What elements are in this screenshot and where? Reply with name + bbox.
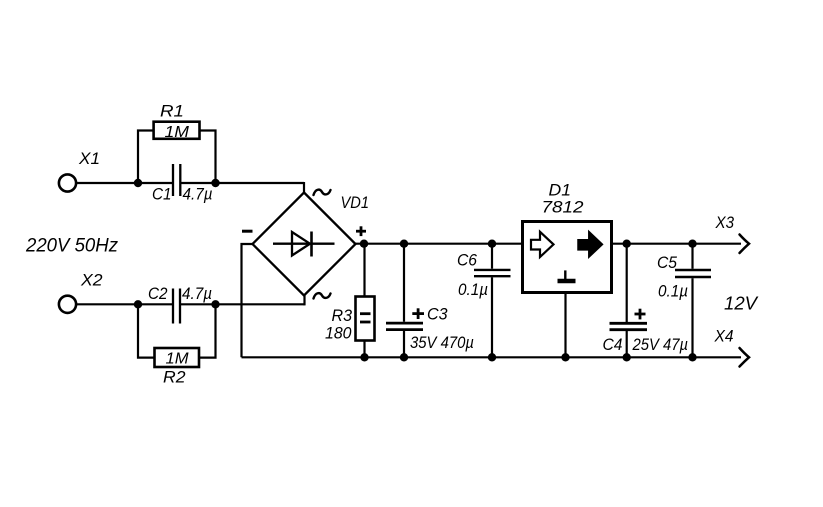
capacitor C2 xyxy=(148,284,212,324)
svg-text:35V 470µ: 35V 470µ xyxy=(410,333,474,352)
terminal X4 arrow xyxy=(714,327,749,367)
wire bridge top connection xyxy=(303,182,305,194)
node junction C xyxy=(134,300,142,308)
node C5 bottom xyxy=(688,353,696,361)
svg-text:C2: C2 xyxy=(148,284,168,303)
node R3 bottom xyxy=(360,353,368,361)
capacitor C4 xyxy=(603,244,689,358)
svg-text:X4: X4 xyxy=(714,327,734,346)
wire X1 line right segment xyxy=(180,182,304,184)
wire X1 line left segment xyxy=(76,182,173,184)
resistor R2 xyxy=(138,304,216,386)
wire X2 line left segment xyxy=(76,303,173,305)
capacitor C3 xyxy=(386,244,474,358)
svg-text:0.1µ: 0.1µ xyxy=(458,280,488,299)
svg-text:0.1µ: 0.1µ xyxy=(658,282,688,301)
resistor R3 xyxy=(325,244,375,358)
wire positive rail xyxy=(356,243,523,245)
svg-text:X1: X1 xyxy=(78,149,100,168)
node C5 top xyxy=(688,240,696,248)
svg-text:C3: C3 xyxy=(427,305,448,324)
node C4 bottom xyxy=(623,353,631,361)
wire ground rail xyxy=(242,356,742,358)
label ~ top of bridge xyxy=(314,190,331,195)
label ~ bottom of bridge xyxy=(314,293,331,298)
svg-text:180: 180 xyxy=(325,324,352,343)
svg-text:7812: 7812 xyxy=(542,198,585,217)
terminal X3 arrow xyxy=(715,213,749,253)
wire bridge bottom connection xyxy=(303,295,305,305)
wire X2 line right segment xyxy=(180,303,305,305)
svg-text:C4: C4 xyxy=(603,335,623,354)
svg-text:C6: C6 xyxy=(457,251,477,270)
node C3 top xyxy=(400,240,408,248)
wire bridge minus output xyxy=(242,244,253,357)
svg-text:4.7µ: 4.7µ xyxy=(182,284,212,303)
svg-text:1M: 1M xyxy=(165,124,190,141)
node C6 top xyxy=(488,240,496,248)
node R3 top xyxy=(360,240,368,248)
bridge rectifier VD1 xyxy=(253,193,370,296)
capacitor C5 xyxy=(657,244,711,358)
svg-text:1M: 1M xyxy=(166,351,190,368)
svg-text:X3: X3 xyxy=(715,213,735,232)
node junction A xyxy=(134,179,142,187)
svg-text:4.7µ: 4.7µ xyxy=(183,185,213,204)
capacitor C1 xyxy=(152,164,213,204)
terminal X2 xyxy=(59,271,103,313)
resistor R1 xyxy=(138,102,216,184)
svg-text:R1: R1 xyxy=(160,102,184,121)
wire output rail xyxy=(612,243,742,245)
wire regulator ground xyxy=(564,293,566,358)
svg-text:R2: R2 xyxy=(163,368,186,387)
svg-text:C5: C5 xyxy=(657,253,677,272)
node C4 top xyxy=(623,240,631,248)
node regulator ground bottom xyxy=(561,353,569,361)
svg-text:25V 47µ: 25V 47µ xyxy=(632,335,689,354)
node C3 bottom xyxy=(400,353,408,361)
svg-text:X2: X2 xyxy=(80,271,103,290)
capacitor C6 xyxy=(457,244,511,358)
node junction D xyxy=(211,300,219,308)
svg-text:12V: 12V xyxy=(724,294,759,314)
svg-text:R3: R3 xyxy=(332,306,353,325)
node junction B xyxy=(211,179,219,187)
svg-text:C1: C1 xyxy=(152,185,172,204)
voltage regulator U1 D1 7812 xyxy=(523,181,612,293)
label minus at bridge xyxy=(242,230,253,233)
svg-text:VD1: VD1 xyxy=(341,193,370,212)
label plus at bridge xyxy=(356,226,366,236)
node C6 bottom xyxy=(488,353,496,361)
svg-text:220V 50Hz: 220V 50Hz xyxy=(25,235,118,257)
terminal X1 xyxy=(59,149,100,192)
